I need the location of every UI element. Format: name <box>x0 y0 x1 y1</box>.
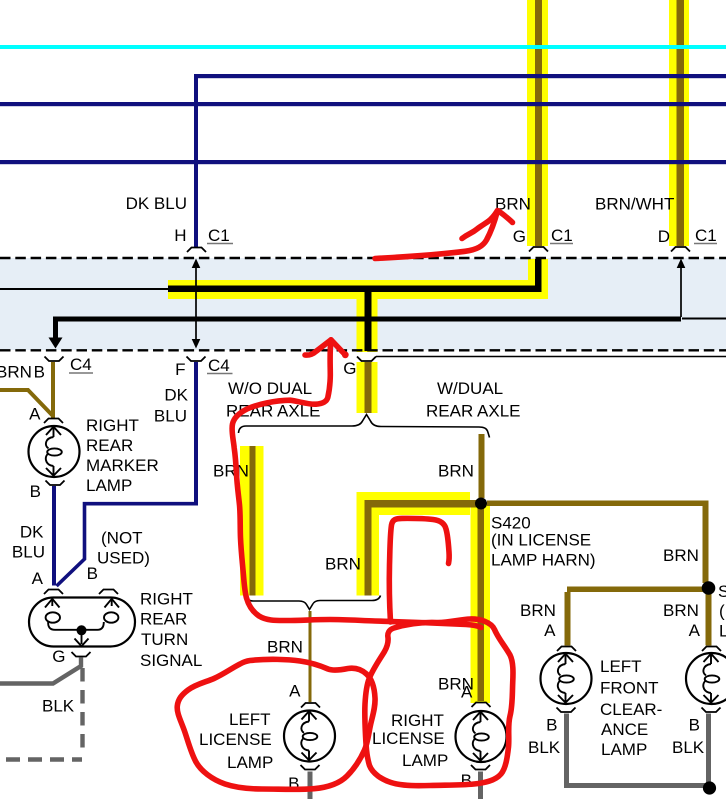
svg-text:W/O DUAL: W/O DUAL <box>228 379 312 398</box>
svg-text:BLU: BLU <box>12 543 45 562</box>
svg-text:A: A <box>289 682 301 701</box>
svg-text:A: A <box>544 621 556 640</box>
svg-text:(IN LICENSE: (IN LICENSE <box>491 531 591 550</box>
svg-text:BRN: BRN <box>0 363 32 382</box>
svg-text:BRN: BRN <box>663 546 699 565</box>
svg-text:SIGNAL: SIGNAL <box>140 651 202 670</box>
svg-text:BRN/WHT: BRN/WHT <box>595 195 674 214</box>
svg-text:BRN: BRN <box>438 462 474 481</box>
svg-text:B: B <box>30 482 41 501</box>
svg-text:USED): USED) <box>97 549 150 568</box>
svg-text:BLU: BLU <box>154 407 187 426</box>
svg-text:A: A <box>32 569 44 588</box>
svg-text:BLK: BLK <box>42 697 75 716</box>
svg-text:B: B <box>546 716 557 735</box>
svg-text:BLK: BLK <box>528 738 561 757</box>
svg-text:C4: C4 <box>208 356 230 375</box>
svg-text:C1: C1 <box>208 226 230 245</box>
svg-text:LICENSE: LICENSE <box>372 729 445 748</box>
svg-text:RIGHT: RIGHT <box>86 416 139 435</box>
svg-text:ANCE: ANCE <box>601 720 648 739</box>
svg-text:B: B <box>87 564 98 583</box>
svg-text:REAR: REAR <box>86 436 133 455</box>
svg-text:A: A <box>461 683 473 702</box>
svg-text:LE: LE <box>719 622 726 641</box>
svg-text:C1: C1 <box>695 226 717 245</box>
svg-text:B: B <box>689 716 700 735</box>
svg-text:D: D <box>658 227 670 246</box>
svg-text:C1: C1 <box>551 226 573 245</box>
svg-text:CLEAR-: CLEAR- <box>600 700 662 719</box>
svg-text:C4: C4 <box>70 355 92 374</box>
svg-text:LAMP: LAMP <box>402 751 448 770</box>
svg-text:(NOT: (NOT <box>101 529 143 548</box>
svg-text:REAR: REAR <box>140 610 187 629</box>
svg-text:LAMP: LAMP <box>86 476 132 495</box>
svg-text:BRN: BRN <box>663 601 699 620</box>
svg-text:B: B <box>34 363 45 382</box>
svg-text:MARKER: MARKER <box>86 456 159 475</box>
svg-text:LAMP: LAMP <box>601 740 647 759</box>
svg-text:G: G <box>52 647 65 666</box>
svg-text:LAMP: LAMP <box>227 753 273 772</box>
svg-text:BLK: BLK <box>672 738 705 757</box>
svg-text:LEFT: LEFT <box>600 657 642 676</box>
svg-text:F: F <box>175 360 185 379</box>
svg-text:BRN: BRN <box>213 462 249 481</box>
svg-text:RIGHT: RIGHT <box>140 590 193 609</box>
svg-text:FRONT: FRONT <box>600 679 659 698</box>
svg-text:S421: S421 <box>718 582 726 601</box>
svg-text:BRN: BRN <box>267 638 303 657</box>
svg-text:LAMP HARN): LAMP HARN) <box>491 551 596 570</box>
svg-text:BRN: BRN <box>325 555 361 574</box>
svg-text:DK: DK <box>20 523 44 542</box>
svg-text:H: H <box>174 226 186 245</box>
svg-text:REAR AXLE: REAR AXLE <box>426 402 521 421</box>
svg-text:RIGHT: RIGHT <box>391 711 444 730</box>
svg-text:G: G <box>343 359 356 378</box>
svg-text:BRN: BRN <box>520 601 556 620</box>
svg-text:LICENSE: LICENSE <box>199 730 272 749</box>
svg-text:DK: DK <box>164 386 188 405</box>
svg-text:G: G <box>513 227 526 246</box>
svg-text:W/DUAL: W/DUAL <box>437 379 503 398</box>
svg-text:TURN: TURN <box>141 630 188 649</box>
svg-text:DK BLU: DK BLU <box>126 194 187 213</box>
svg-text:A: A <box>689 621 701 640</box>
svg-text:LEFT: LEFT <box>229 710 271 729</box>
svg-text:A: A <box>29 405 41 424</box>
svg-text:(IN: (IN <box>719 602 726 621</box>
